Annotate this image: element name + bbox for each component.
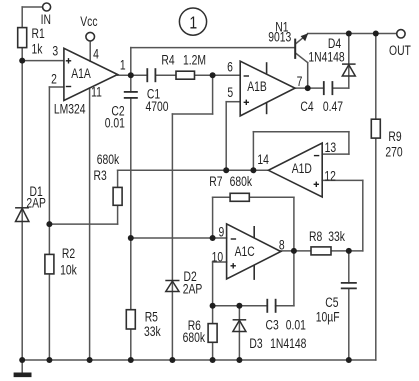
svg-text:9013: 9013 xyxy=(268,29,291,45)
svg-text:1: 1 xyxy=(189,13,197,33)
svg-text:0.01: 0.01 xyxy=(105,115,125,131)
svg-text:33k: 33k xyxy=(328,229,345,245)
svg-text:6: 6 xyxy=(227,59,233,75)
svg-text:2AP: 2AP xyxy=(26,195,46,211)
svg-text:9: 9 xyxy=(218,224,224,240)
svg-text:A1C: A1C xyxy=(235,243,255,259)
svg-text:4700: 4700 xyxy=(146,98,169,114)
svg-text:Vcc: Vcc xyxy=(80,14,97,30)
svg-text:13: 13 xyxy=(325,139,337,155)
svg-text:R3: R3 xyxy=(94,168,107,184)
svg-text:680k: 680k xyxy=(97,151,120,167)
svg-text:A1B: A1B xyxy=(247,78,267,94)
svg-text:R5: R5 xyxy=(145,309,158,325)
svg-text:12: 12 xyxy=(324,168,336,184)
svg-text:R4: R4 xyxy=(161,52,174,68)
svg-text:5: 5 xyxy=(227,84,233,100)
svg-text:D3: D3 xyxy=(249,335,262,351)
svg-text:1N4148: 1N4148 xyxy=(308,49,344,65)
svg-text:11: 11 xyxy=(91,84,102,100)
svg-text:10: 10 xyxy=(212,249,224,265)
svg-text:1N4148: 1N4148 xyxy=(270,335,306,351)
svg-text:R9: R9 xyxy=(388,129,401,145)
svg-text:7: 7 xyxy=(297,73,303,89)
svg-text:2: 2 xyxy=(51,71,57,87)
svg-text:C3: C3 xyxy=(265,317,278,333)
svg-text:A1D: A1D xyxy=(292,160,312,176)
svg-text:1.2M: 1.2M xyxy=(183,52,206,68)
svg-text:10k: 10k xyxy=(60,262,77,278)
svg-text:14: 14 xyxy=(257,152,269,168)
svg-text:OUT: OUT xyxy=(389,43,411,59)
svg-text:2AP: 2AP xyxy=(183,281,203,297)
svg-text:R1: R1 xyxy=(31,25,44,41)
svg-text:A1A: A1A xyxy=(71,66,91,82)
svg-text:4: 4 xyxy=(93,46,99,62)
svg-text:R2: R2 xyxy=(62,245,75,261)
svg-text:1k: 1k xyxy=(31,41,43,57)
svg-text:0.47: 0.47 xyxy=(323,98,343,114)
svg-text:10µF: 10µF xyxy=(316,309,340,325)
svg-text:R7: R7 xyxy=(209,174,222,190)
svg-text:R8: R8 xyxy=(309,229,322,245)
svg-text:680k: 680k xyxy=(183,329,206,345)
svg-text:270: 270 xyxy=(385,144,402,160)
svg-text:680k: 680k xyxy=(230,174,253,190)
svg-text:C4: C4 xyxy=(300,98,313,114)
svg-text:0.01: 0.01 xyxy=(286,317,306,333)
svg-text:LM324: LM324 xyxy=(54,101,86,117)
svg-text:1: 1 xyxy=(120,57,126,73)
svg-text:3: 3 xyxy=(52,43,58,59)
svg-text:8: 8 xyxy=(279,237,285,253)
svg-text:33k: 33k xyxy=(144,324,161,340)
